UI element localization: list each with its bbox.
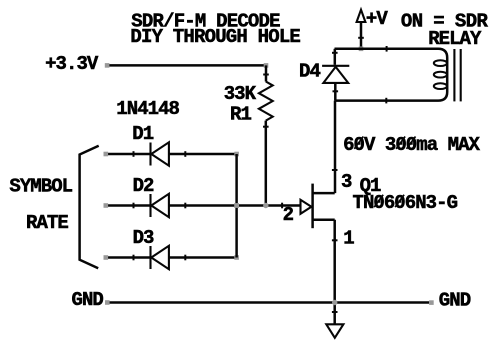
- svg-text:2: 2: [283, 204, 294, 226]
- relay K1 coil loop wiring: [335, 49, 448, 101]
- transistor Q1: [301, 184, 335, 229]
- power +V arrow: [357, 10, 366, 49]
- wire relay to drain: [334, 101, 337, 194]
- bracket symbol-rate brace: [80, 146, 99, 269]
- svg-text:TN0606N3-G: TN0606N3-G: [353, 192, 458, 214]
- wire +3.3V rail: [109, 64, 267, 67]
- junction source to ground rail: [332, 300, 337, 305]
- node D1 left endpoint: [104, 152, 109, 157]
- note slashed zeros of 60V 300ma: [354, 137, 415, 149]
- svg-text:GND: GND: [72, 289, 104, 311]
- junction resistor to gate wire: [263, 203, 268, 208]
- wire D3 anode lead: [106, 256, 150, 259]
- node corner at resistor top: [264, 63, 269, 68]
- junction bus to row2: [234, 203, 239, 208]
- wire D2 to transistor gate: [169, 204, 301, 207]
- relay pin tick top: [386, 46, 388, 52]
- svg-text:D4: D4: [299, 61, 320, 83]
- value label slashed zeros of TN0606N3-G: [374, 195, 404, 207]
- pin tick drain: [332, 169, 338, 171]
- svg-text:RELAY: RELAY: [428, 28, 482, 50]
- svg-text:1N4148: 1N4148: [116, 98, 179, 120]
- diode D4: [322, 49, 349, 101]
- diode D1: [134, 142, 186, 165]
- svg-text:+V: +V: [366, 8, 388, 30]
- node GND left endpoint: [105, 300, 110, 305]
- svg-text:D1: D1: [132, 123, 153, 145]
- wire source to ground rail: [333, 220, 336, 303]
- ground symbol: [326, 303, 343, 338]
- junction +V on relay top wire: [359, 47, 364, 52]
- pin tick source: [332, 239, 338, 241]
- wire D3 to bus: [169, 256, 237, 259]
- svg-text:3: 3: [341, 171, 352, 193]
- svg-text:1: 1: [343, 228, 354, 250]
- svg-text:D3: D3: [133, 227, 154, 249]
- svg-text:RATE: RATE: [26, 212, 68, 234]
- wire D1 anode lead: [106, 153, 150, 156]
- node D1 right / bus top: [234, 152, 239, 157]
- node D2 left endpoint: [104, 203, 109, 208]
- wire D1 to bus: [169, 153, 237, 156]
- node D3 right / bus bottom: [234, 255, 239, 260]
- pin tick gate: [281, 203, 283, 209]
- resistor R1: [259, 65, 273, 205]
- wire ground rail: [109, 301, 430, 304]
- svg-text:GND: GND: [439, 290, 471, 312]
- svg-text:DIY THROUGH HOLE: DIY THROUGH HOLE: [130, 26, 300, 48]
- relay pin tick bottom: [385, 98, 387, 104]
- node +3.3V wire start endpoint: [105, 63, 110, 68]
- svg-text:R1: R1: [230, 104, 251, 126]
- node GND right endpoint: [429, 300, 434, 305]
- wire diode bus vertical: [235, 154, 238, 258]
- relay core bars: [454, 49, 460, 101]
- svg-text:33K: 33K: [224, 83, 257, 105]
- relay coil turns: [434, 60, 447, 89]
- svg-text:+3.3V: +3.3V: [45, 53, 99, 75]
- wire D2 anode lead: [106, 204, 150, 207]
- svg-text:SYMBOL: SYMBOL: [9, 176, 72, 198]
- node D3 left endpoint: [104, 255, 109, 260]
- svg-text:D2: D2: [133, 175, 154, 197]
- diode D2: [134, 194, 186, 217]
- diode D3: [134, 246, 186, 269]
